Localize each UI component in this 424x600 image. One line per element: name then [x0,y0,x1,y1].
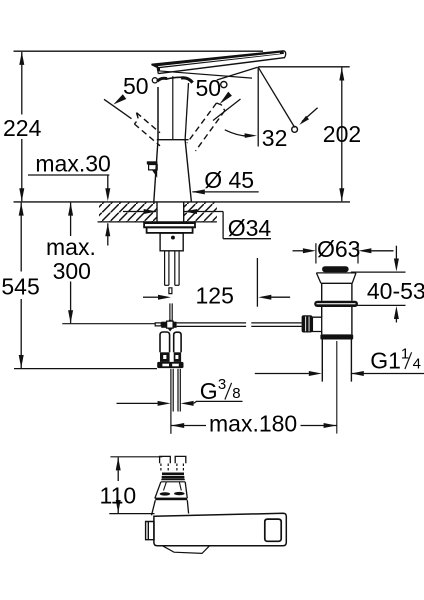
svg-text:1: 1 [401,346,409,363]
svg-text:32: 32 [262,125,288,151]
svg-text:G: G [200,378,218,404]
svg-text:G1: G1 [370,348,401,374]
svg-text:8: 8 [232,385,240,402]
svg-text:545: 545 [1,274,39,300]
svg-text:125: 125 [196,283,234,309]
svg-text:3: 3 [218,376,226,393]
svg-text:110: 110 [100,482,137,508]
svg-text:4: 4 [413,356,421,373]
svg-text:Ø34: Ø34 [228,215,272,241]
svg-text:40-53: 40-53 [367,278,424,304]
svg-text:202: 202 [323,121,361,147]
svg-text:Ø 45: Ø 45 [204,167,254,193]
svg-text:300: 300 [53,258,91,284]
svg-text:50: 50 [196,75,222,101]
svg-text:Ø63: Ø63 [317,236,360,262]
svg-text:50: 50 [123,73,149,99]
svg-text:224: 224 [3,115,42,141]
svg-text:max.: max. [46,234,96,260]
svg-text:max.180: max.180 [209,410,297,436]
svg-text:max.30: max.30 [35,151,110,177]
